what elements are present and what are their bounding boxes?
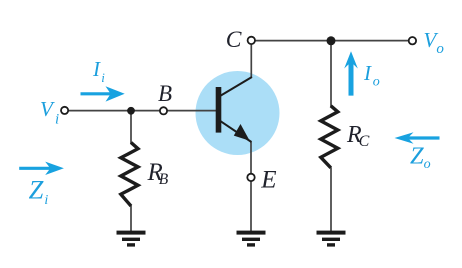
wire: RB bottom to ground [130,206,132,233]
arrow Io (output current, up) [344,51,358,95]
wire: input from Vi terminal to B terminal [68,110,159,112]
wire: E terminal to ground [250,181,252,232]
transistor Q1 highlight circle [196,71,280,155]
wire: emitter vertical to E terminal [250,142,252,174]
arrow Ii (input current) [81,86,125,101]
transistor Q1 emitter arrowhead [234,124,250,141]
wire: collector vertical from C terminal [250,44,252,78]
junction dot at top rail/RC [327,36,336,45]
resistor RB zigzag [121,143,138,207]
ground under RC [317,231,346,247]
arrow Zi (input impedance) [19,162,64,175]
svg-text:Ii: Ii [92,57,105,85]
svg-text:Vo: Vo [424,28,445,57]
svg-text:Zi: Zi [29,175,49,208]
arrow Zo (output impedance, left) [395,132,440,144]
svg-text:B: B [158,81,172,106]
terminal C [248,37,255,44]
svg-text:C: C [226,27,242,53]
transistor Q1 base bar [216,87,222,133]
svg-text:RB: RB [147,159,169,188]
svg-text:Zo: Zo [410,143,431,172]
terminal E [247,174,254,181]
wire: top rail from C terminal to Vo terminal [255,40,409,42]
ground under RB [117,231,146,247]
transistor Q1 emitter lead [220,121,251,142]
wire: RC bottom to ground [330,167,332,232]
terminal B [160,107,167,114]
wire: junction down to RB top [130,111,132,144]
svg-text:Vi: Vi [40,97,59,127]
ground under E [237,231,266,247]
svg-text:RC: RC [346,122,370,150]
terminal Vi [61,107,68,114]
svg-text:E: E [260,167,276,194]
junction dot at RB/input wire [127,107,135,115]
resistor RC zigzag [321,106,338,168]
wire: top rail junction down to RC [330,41,332,107]
wire: B terminal to transistor base [167,110,216,112]
transistor Q1 collector lead [220,77,252,96]
svg-text:Io: Io [363,61,380,89]
terminal Vo [409,37,416,44]
